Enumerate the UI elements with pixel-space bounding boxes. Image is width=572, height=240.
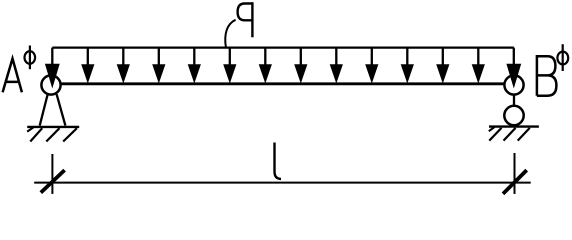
ground hatch stub A	[27, 127, 33, 131]
load arrow 3 head	[117, 64, 130, 83]
load arrow 5 head	[188, 64, 201, 83]
load arrow 7 head	[259, 64, 272, 83]
load arrow 12 head	[436, 64, 449, 83]
load arrow 1 stem	[51, 48, 53, 68]
distributed load top line	[52, 46, 514, 48]
leader line from q to load	[225, 20, 235, 48]
roller circle at support B	[504, 106, 523, 125]
load arrow 6 stem	[229, 48, 231, 69]
load arrow 7 stem	[264, 48, 266, 69]
load arrow 10 stem	[371, 48, 373, 69]
support A triangle left leg	[40, 94, 48, 125]
load arrow 6 head	[223, 64, 236, 83]
dimension tick at B	[503, 170, 527, 194]
load arrow 9 stem	[335, 48, 337, 69]
ground hatch stub B	[489, 127, 495, 131]
load arrow 12 stem	[442, 48, 444, 69]
ground hatch A2	[46, 128, 59, 141]
load arrow 5 stem	[193, 48, 195, 69]
extension line at A	[51, 154, 53, 194]
label B	[537, 56, 557, 95]
load arrow 11 stem	[406, 48, 408, 69]
load arrow 8 stem	[300, 48, 302, 69]
ground line at support B	[489, 125, 539, 127]
ground hatch B2	[504, 128, 516, 141]
label A	[3, 59, 22, 93]
load arrow 11 head	[401, 64, 414, 83]
load arrow 2 head	[81, 64, 94, 83]
ground line at support A	[27, 126, 79, 128]
superscript phi at A	[25, 46, 36, 70]
beam AB	[61, 82, 505, 85]
ground hatch B1	[489, 128, 501, 141]
load arrow 14 stem	[513, 48, 515, 68]
ground hatch A3	[63, 128, 77, 141]
load arrow 9 head	[330, 64, 343, 83]
load arrow 14 head	[506, 64, 521, 89]
load arrow 8 head	[294, 64, 307, 83]
hinge circle at support B	[504, 75, 523, 94]
load arrow 13 head	[472, 64, 485, 83]
dimension tick at A	[41, 170, 65, 193]
superscript phi at B	[557, 44, 568, 71]
load arrow 10 head	[365, 64, 378, 83]
load arrow 3 stem	[122, 48, 124, 69]
load arrow 13 stem	[477, 48, 479, 69]
ground hatch A1	[30, 128, 42, 141]
hinge circle at support A	[41, 75, 60, 94]
dimension line	[34, 182, 531, 184]
load arrow 2 stem	[87, 48, 89, 69]
load arrow 4 head	[152, 64, 165, 83]
extension line at B	[514, 153, 516, 194]
ground hatch B3	[518, 128, 530, 141]
load arrow 4 stem	[158, 48, 160, 69]
roller stem at support B	[513, 95, 515, 106]
label q	[238, 2, 253, 37]
label l	[275, 143, 282, 179]
load arrow 1 head	[45, 64, 60, 89]
support A triangle right leg	[57, 94, 66, 125]
